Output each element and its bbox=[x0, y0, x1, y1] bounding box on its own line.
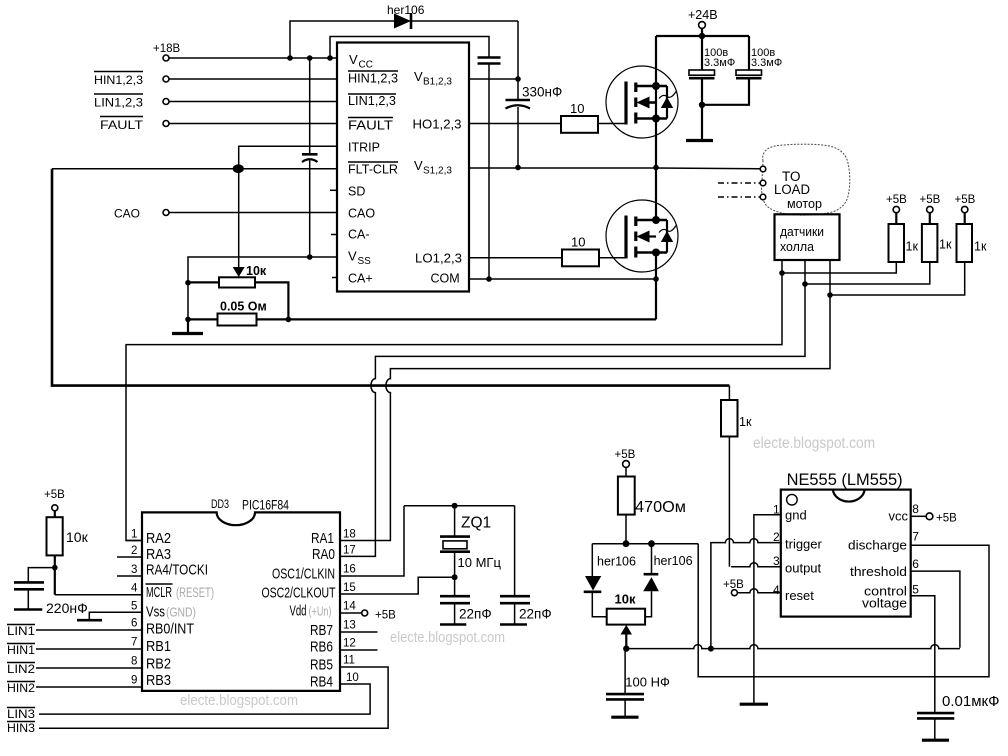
hall sensor box bbox=[775, 214, 840, 260]
svg-text:7: 7 bbox=[131, 637, 137, 649]
wire LIN1 to RB0 bbox=[36, 629, 142, 631]
svg-text:8: 8 bbox=[912, 502, 919, 516]
U1 pin label CAO bbox=[348, 207, 375, 221]
capacitor 220nF MCLR bbox=[14, 568, 88, 616]
wire CA+ stub bbox=[332, 277, 337, 279]
DD3 label RB5 bbox=[310, 657, 333, 674]
svg-text:RA3: RA3 bbox=[146, 546, 171, 563]
svg-text:V: V bbox=[414, 158, 423, 173]
svg-text:+24В: +24В bbox=[688, 8, 718, 22]
svg-text:+5В: +5В bbox=[955, 194, 976, 206]
svg-text:RA1: RA1 bbox=[311, 530, 334, 547]
U1 pin label VS1,2,3 bbox=[414, 158, 452, 177]
capacitor ITRIP filter bbox=[302, 55, 318, 260]
NE555 label output bbox=[785, 561, 822, 576]
ground +24V bulk bbox=[686, 105, 713, 141]
svg-text:(+Un): (+Un) bbox=[309, 604, 332, 619]
svg-text:SS: SS bbox=[358, 256, 372, 267]
wire dash phase 2 bbox=[718, 182, 760, 184]
svg-text:Vdd: Vdd bbox=[290, 603, 307, 620]
diode her106 D2 bbox=[584, 544, 636, 617]
U1 pin label COM bbox=[431, 272, 460, 286]
DD3 pin 13 number bbox=[343, 620, 356, 632]
DD3 label OSC1/CLKIN bbox=[272, 566, 335, 583]
wire RB6 stub bbox=[340, 649, 378, 651]
terminal +18V bbox=[153, 43, 181, 61]
svg-text:1к: 1к bbox=[739, 415, 752, 429]
svg-text:CAO: CAO bbox=[348, 207, 375, 221]
wire drain Q1 bbox=[655, 36, 657, 86]
svg-text:9: 9 bbox=[131, 675, 137, 687]
svg-text:+5В: +5В bbox=[936, 512, 957, 524]
wire RB7 stub bbox=[340, 631, 378, 633]
wire CAO input bbox=[169, 212, 337, 214]
wire 1k to output pin bbox=[728, 437, 730, 567]
svg-text:RB7: RB7 bbox=[310, 622, 333, 639]
op-amp driver IC U1 box bbox=[337, 43, 469, 292]
wire wiper to threshold bbox=[626, 645, 960, 649]
terminal +24V bbox=[688, 8, 718, 39]
svg-text:RB4: RB4 bbox=[310, 674, 333, 691]
wire dash phase 3 bbox=[718, 196, 760, 198]
svg-text:RB5: RB5 bbox=[310, 657, 333, 674]
wire ITRIP bbox=[239, 146, 337, 165]
svg-text:ITRIP: ITRIP bbox=[348, 141, 380, 155]
terminal LIN1 bbox=[7, 624, 35, 638]
terminal +5V MCLR pullup bbox=[44, 489, 65, 511]
resistor 10 upper gate bbox=[561, 101, 598, 133]
DD3 label RB3 bbox=[146, 672, 171, 689]
node FLT-CLR junction bbox=[233, 164, 244, 173]
svg-text:NE555 (LM555): NE555 (LM555) bbox=[787, 471, 903, 489]
capacitor 22pF C7 bbox=[500, 506, 552, 625]
svg-text:gnd: gnd bbox=[785, 508, 807, 523]
DD3 label RA2 bbox=[146, 530, 171, 547]
wire VB pin bbox=[469, 78, 518, 80]
wire diode top rail bbox=[592, 540, 698, 547]
resistor 1k hall pullup R2 bbox=[920, 194, 952, 262]
NE555 label gnd bbox=[785, 508, 807, 523]
svg-text:+18В: +18В bbox=[153, 43, 181, 55]
svg-text:threshold: threshold bbox=[850, 564, 907, 579]
svg-text:B1,2,3: B1,2,3 bbox=[423, 77, 452, 88]
U1 pin label FAULT bbox=[348, 118, 393, 133]
DD3 label Vss (GND) bbox=[146, 604, 196, 621]
svg-text:CA-: CA- bbox=[348, 228, 370, 242]
svg-text:3.3мФ: 3.3мФ bbox=[704, 57, 735, 69]
capacitor 22pF C6 bbox=[440, 577, 492, 624]
svg-text:COM: COM bbox=[431, 272, 460, 286]
svg-text:HIN1,2,3: HIN1,2,3 bbox=[94, 73, 143, 87]
svg-text:3.3мФ: 3.3мФ bbox=[751, 57, 782, 69]
DD3 pin 14 number bbox=[343, 601, 356, 613]
capacitor 0.01uF bbox=[917, 693, 999, 740]
terminal +5V vcc pin8 bbox=[911, 512, 957, 524]
DD3 label RB4 bbox=[310, 674, 333, 691]
wire OSC1 bbox=[340, 506, 404, 576]
DD3 pin 2 stub bbox=[117, 545, 142, 557]
DD3 label RB7 bbox=[310, 622, 333, 639]
DD3 label RB6 bbox=[310, 639, 333, 656]
svg-text:DD3: DD3 bbox=[211, 499, 229, 511]
DD3 pin 10 number bbox=[346, 672, 359, 684]
terminal HIN1 bbox=[7, 643, 35, 657]
wire hall sensor 3 bbox=[340, 260, 965, 541]
svg-text:330нФ: 330нФ bbox=[522, 85, 562, 100]
NE555 label vcc bbox=[889, 508, 909, 523]
svg-text:vcc: vcc bbox=[889, 508, 909, 523]
U1 pin label SD bbox=[348, 185, 365, 199]
DD3 label RA4/TOCKI bbox=[146, 562, 208, 579]
DD3 pin 5 number bbox=[131, 601, 137, 613]
svg-text:her106: her106 bbox=[654, 554, 693, 568]
svg-text:RA4/TOCKI: RA4/TOCKI bbox=[146, 562, 208, 579]
capacitor 100v 3.3mF C4 bbox=[689, 36, 735, 108]
DD3 pin 8 number bbox=[131, 656, 137, 668]
terminal LIN3 bbox=[7, 707, 35, 721]
DD3 pin 6 number bbox=[131, 618, 137, 630]
NE555 pin 1 number bbox=[773, 502, 780, 516]
NE555 label trigger bbox=[785, 537, 823, 552]
svg-text:1: 1 bbox=[131, 529, 137, 541]
svg-text:MCLR: MCLR bbox=[146, 584, 172, 601]
DD3 pin 15 number bbox=[343, 582, 356, 594]
svg-text:LIN2: LIN2 bbox=[7, 662, 35, 676]
svg-text:SD: SD bbox=[348, 185, 365, 199]
svg-text:FAULT: FAULT bbox=[348, 119, 393, 133]
svg-text:8: 8 bbox=[131, 656, 137, 668]
wire source Q2 to shunt bbox=[653, 253, 659, 320]
NE555 label reset bbox=[785, 588, 814, 603]
ground Vss bbox=[77, 619, 102, 622]
wire FLT-CLR bus to 1k bbox=[52, 169, 729, 386]
svg-text:HIN1,2,3: HIN1,2,3 bbox=[348, 72, 398, 86]
svg-text:OSC2/CLKOUT: OSC2/CLKOUT bbox=[262, 585, 336, 602]
wire LIN2 to RB2 bbox=[36, 667, 142, 669]
svg-text:1к: 1к bbox=[974, 240, 987, 254]
terminal FAULT input bbox=[100, 117, 169, 133]
watermark oscillator bbox=[390, 629, 505, 646]
svg-text:+5В: +5В bbox=[375, 610, 396, 622]
DD3 pin 3 stub bbox=[117, 564, 142, 576]
motor M1 body bbox=[762, 144, 850, 215]
NE555 pin 6 number bbox=[912, 557, 919, 571]
svg-text:14: 14 bbox=[343, 601, 356, 613]
svg-text:RB0/INT: RB0/INT bbox=[146, 621, 194, 638]
wire source Q1 to VS bbox=[653, 86, 659, 170]
resistor 10k MCLR pullup bbox=[47, 511, 89, 556]
wire output pin3 bbox=[731, 563, 781, 567]
svg-text:FLT-CLR: FLT-CLR bbox=[348, 163, 398, 177]
svg-text:датчики: датчики bbox=[780, 224, 824, 239]
svg-text:ZQ1: ZQ1 bbox=[461, 515, 491, 532]
wire OSC2 bbox=[340, 574, 458, 594]
microcontroller DD3 PIC16F84 box bbox=[142, 498, 340, 691]
svg-text:HIN3: HIN3 bbox=[7, 721, 35, 735]
U1 pin label VB1,2,3 bbox=[414, 69, 452, 88]
wire HIN3 to RB5 bbox=[39, 667, 388, 728]
resistor 1k hall pullup R1 bbox=[886, 194, 918, 262]
DD3 pin 1 number bbox=[126, 529, 142, 541]
terminal +5V 470Ohm bbox=[615, 449, 636, 467]
potentiometer 10k current limit bbox=[188, 169, 288, 320]
NE555 label discharge bbox=[848, 537, 907, 552]
svg-text:RB2: RB2 bbox=[146, 656, 171, 673]
wire VSS to shunt bbox=[185, 257, 337, 322]
motor terminal phase bbox=[760, 166, 766, 172]
svg-text:22пФ: 22пФ bbox=[519, 607, 552, 622]
svg-text:5: 5 bbox=[131, 601, 137, 613]
NE555 pin 7 number bbox=[912, 530, 919, 544]
svg-text:FAULT: FAULT bbox=[100, 118, 144, 132]
svg-text:5: 5 bbox=[912, 583, 919, 597]
DD3 pin 16 number bbox=[343, 564, 356, 576]
U1 pin label VCC bbox=[349, 52, 373, 71]
svg-text:LIN1,2,3: LIN1,2,3 bbox=[94, 96, 143, 110]
svg-text:RA0: RA0 bbox=[312, 546, 335, 563]
svg-text:her106: her106 bbox=[387, 3, 425, 17]
wire HO gate bbox=[469, 123, 561, 125]
watermark right bbox=[753, 435, 875, 452]
capacitor 330nF bootstrap bbox=[506, 79, 563, 170]
svg-text:HO1,2,3: HO1,2,3 bbox=[413, 118, 462, 132]
svg-text:3: 3 bbox=[131, 564, 137, 576]
svg-text:+5В: +5В bbox=[615, 449, 636, 461]
svg-text:output: output bbox=[785, 561, 822, 576]
svg-text:220нФ: 220нФ bbox=[46, 600, 88, 616]
wire FLT-CLR bbox=[52, 168, 337, 170]
svg-text:electe.blogspot.com: electe.blogspot.com bbox=[753, 435, 875, 452]
motor terminal 3 bbox=[760, 194, 766, 200]
wire 470 to diode rail bbox=[623, 515, 630, 548]
wire Vss ground bbox=[89, 612, 142, 620]
wire threshold pin6 bbox=[911, 571, 960, 648]
diode her106 D3 bbox=[643, 544, 692, 617]
NE555 pin 2 number bbox=[773, 530, 780, 544]
wire phase node bbox=[655, 168, 657, 221]
resistor 0.05 Ohm shunt bbox=[218, 300, 267, 326]
NE555 label control voltage bbox=[862, 584, 907, 611]
wire MCLR pullup node bbox=[52, 555, 142, 594]
wire crystal top rail bbox=[404, 503, 515, 509]
svg-text:LO1,2,3: LO1,2,3 bbox=[415, 252, 462, 266]
svg-text:7: 7 bbox=[912, 530, 919, 544]
svg-text:4: 4 bbox=[131, 583, 138, 595]
wire shunt rail bbox=[188, 317, 656, 323]
DD3 pin 11 number bbox=[343, 655, 355, 667]
U1 pin label HIN1,2,3 bbox=[348, 71, 398, 86]
DD3 pin 12 number bbox=[343, 638, 356, 650]
svg-text:LIN1: LIN1 bbox=[7, 624, 35, 638]
svg-text:CA+: CA+ bbox=[348, 272, 373, 286]
svg-text:+5В: +5В bbox=[44, 489, 65, 501]
terminal +5V Vdd bbox=[340, 610, 396, 622]
svg-text:22пФ: 22пФ bbox=[459, 607, 492, 622]
DD3 label RB1 bbox=[146, 638, 171, 655]
DD3 pin 17 number bbox=[343, 545, 356, 557]
svg-text:voltage: voltage bbox=[862, 596, 907, 611]
terminal HIN1,2,3 input bbox=[94, 72, 169, 88]
svg-text:HIN1: HIN1 bbox=[7, 643, 35, 657]
capacitor 100v 3.3mF C5 bbox=[702, 36, 782, 105]
motor terminal 2 bbox=[760, 180, 766, 186]
wire HIN input bbox=[169, 78, 337, 80]
svg-text:10к: 10к bbox=[66, 529, 89, 545]
wire CA- stub bbox=[331, 234, 337, 236]
svg-text:холла: холла bbox=[780, 239, 815, 254]
svg-text:+5В: +5В bbox=[886, 194, 907, 206]
svg-text:16: 16 bbox=[343, 564, 356, 576]
terminal +5V reset bbox=[723, 579, 744, 596]
NE555 pin 4 number bbox=[773, 583, 780, 597]
svg-text:OSC1/CLKIN: OSC1/CLKIN bbox=[272, 566, 335, 583]
svg-text:discharge: discharge bbox=[848, 537, 907, 552]
svg-text:13: 13 bbox=[343, 620, 356, 632]
wire gnd pin1 bbox=[754, 515, 781, 704]
wire trigger pin2 bbox=[708, 539, 781, 652]
ground 220nF bbox=[14, 608, 42, 611]
capacitor VCC bypass bbox=[478, 58, 501, 282]
DD3 pin 18 number bbox=[343, 529, 356, 541]
svg-text:electe.blogspot.com: electe.blogspot.com bbox=[390, 629, 505, 646]
terminal CAO input bbox=[114, 207, 169, 221]
svg-text:0.01мкФ: 0.01мкФ bbox=[942, 693, 999, 710]
ground C7 bbox=[500, 623, 527, 626]
svg-text:(RESET): (RESET) bbox=[176, 584, 214, 600]
svg-text:electe.blogspot.com: electe.blogspot.com bbox=[180, 692, 298, 709]
svg-text:1к: 1к bbox=[939, 238, 952, 252]
U1 pin label LIN1,2,3 bbox=[348, 94, 396, 108]
wire control voltage pin5 bbox=[911, 596, 935, 713]
svg-text:+5В: +5В bbox=[920, 194, 941, 206]
svg-text:RB6: RB6 bbox=[310, 639, 333, 656]
svg-text:HIN2: HIN2 bbox=[7, 681, 35, 695]
svg-text:10к: 10к bbox=[246, 264, 267, 278]
U1 pin label LO1,2,3 bbox=[415, 252, 462, 266]
wire VB bootstrap drop bbox=[515, 21, 521, 82]
wire HIN2 to RB3 bbox=[36, 686, 142, 688]
terminal HIN2 bbox=[7, 681, 35, 695]
wire reset pin4 bbox=[737, 589, 780, 593]
svg-text:мотор: мотор bbox=[787, 197, 822, 211]
NE555 pin 8 number bbox=[912, 502, 919, 516]
svg-text:reset: reset bbox=[785, 588, 814, 603]
svg-text:6: 6 bbox=[912, 557, 919, 571]
U1 pin label HO1,2,3 bbox=[413, 118, 462, 132]
svg-text:11: 11 bbox=[343, 655, 355, 667]
terminal HIN3 bbox=[7, 721, 35, 735]
NE555 pin 3 number bbox=[773, 554, 780, 568]
svg-text:0.05 Ом: 0.05 Ом bbox=[220, 300, 267, 314]
diode her106 D1 bbox=[287, 3, 518, 61]
svg-text:V: V bbox=[414, 69, 423, 84]
wire hall sensor 1 bbox=[126, 260, 896, 541]
ground C6 bbox=[440, 623, 466, 626]
svg-text:18: 18 bbox=[343, 529, 356, 541]
U1 pin label CA- bbox=[348, 228, 370, 242]
wire gate Q1 bbox=[598, 123, 626, 125]
wire COM bbox=[469, 278, 656, 280]
crystal ZQ1 bbox=[440, 506, 501, 578]
capacitor 100nF bbox=[606, 649, 670, 718]
terminal LIN1,2,3 input bbox=[94, 94, 169, 110]
svg-text:4: 4 bbox=[773, 583, 780, 597]
svg-text:Vss: Vss bbox=[146, 604, 165, 621]
svg-text:17: 17 bbox=[343, 545, 356, 557]
svg-text:LIN3: LIN3 bbox=[7, 707, 35, 721]
svg-text:10к: 10к bbox=[615, 592, 636, 607]
resistor 1k hall pullup R3 bbox=[955, 194, 987, 262]
svg-text:CAO: CAO bbox=[114, 207, 140, 221]
svg-text:RB1: RB1 bbox=[146, 638, 171, 655]
svg-text:6: 6 bbox=[131, 618, 137, 630]
svg-text:V: V bbox=[348, 249, 357, 264]
wire LIN3 to RB4 bbox=[39, 684, 370, 714]
ground shunt bbox=[172, 319, 203, 333]
wire HIN1 to RB1 bbox=[36, 648, 142, 650]
svg-text:10: 10 bbox=[570, 101, 584, 116]
resistor 470 Ohm bbox=[618, 467, 686, 516]
svg-text:RA2: RA2 bbox=[146, 530, 171, 547]
svg-text:(GND): (GND) bbox=[166, 605, 196, 620]
U1 pin label VSS bbox=[348, 249, 371, 268]
ground 0.01uF bbox=[922, 739, 949, 742]
svg-text:2: 2 bbox=[131, 545, 137, 557]
DD3 label RB2 bbox=[146, 656, 171, 673]
svg-text:12: 12 bbox=[343, 638, 356, 650]
watermark pic bbox=[180, 692, 298, 709]
DD3 label MCLR (RESET) bbox=[146, 584, 215, 601]
svg-text:LIN1,2,3: LIN1,2,3 bbox=[348, 94, 396, 108]
wire discharge pin7 loop bbox=[698, 544, 989, 677]
resistor 1k timer feed bbox=[721, 386, 752, 437]
svg-text:15: 15 bbox=[343, 582, 356, 594]
svg-text:her106: her106 bbox=[597, 555, 636, 569]
svg-text:3: 3 bbox=[773, 554, 780, 568]
DD3 label RB0/INT bbox=[146, 621, 194, 638]
transistor Q1 upper MOSFET bbox=[606, 66, 678, 138]
svg-text:S1,2,3: S1,2,3 bbox=[423, 166, 452, 177]
DD3 label Vdd (+Un) bbox=[290, 603, 332, 620]
svg-text:10: 10 bbox=[571, 235, 585, 250]
transistor Q2 lower MOSFET bbox=[606, 200, 678, 272]
svg-text:V: V bbox=[349, 52, 358, 67]
resistor 10 lower gate bbox=[562, 235, 599, 267]
terminal LIN2 bbox=[7, 662, 35, 676]
wire +18V to VCC bbox=[169, 57, 337, 59]
NE555 label threshold bbox=[850, 564, 907, 579]
potentiometer 10k PWM bbox=[607, 592, 645, 652]
svg-text:10: 10 bbox=[346, 672, 359, 684]
U1 pin label ITRIP bbox=[348, 141, 380, 155]
svg-text:470Ом: 470Ом bbox=[635, 499, 686, 516]
ground NE555 bbox=[740, 703, 768, 706]
wire FAULT input bbox=[169, 123, 337, 125]
wire phase to motor bbox=[656, 167, 760, 170]
svg-text:10 МГц: 10 МГц bbox=[458, 555, 502, 570]
wire VCC branch bbox=[327, 37, 489, 61]
timer NE555 box bbox=[781, 471, 911, 617]
DD3 label RA1 bbox=[311, 530, 334, 547]
ground 100nF bbox=[611, 716, 638, 719]
DD3 pin 7 number bbox=[131, 637, 137, 649]
svg-text:LOAD: LOAD bbox=[774, 182, 810, 197]
svg-text:100 НФ: 100 НФ bbox=[625, 674, 670, 689]
DD3 label RA0 bbox=[312, 546, 335, 563]
NE555 pin 5 number bbox=[912, 583, 919, 597]
DD3 label RA3 bbox=[146, 546, 171, 563]
svg-text:PIC16F84: PIC16F84 bbox=[242, 498, 289, 513]
